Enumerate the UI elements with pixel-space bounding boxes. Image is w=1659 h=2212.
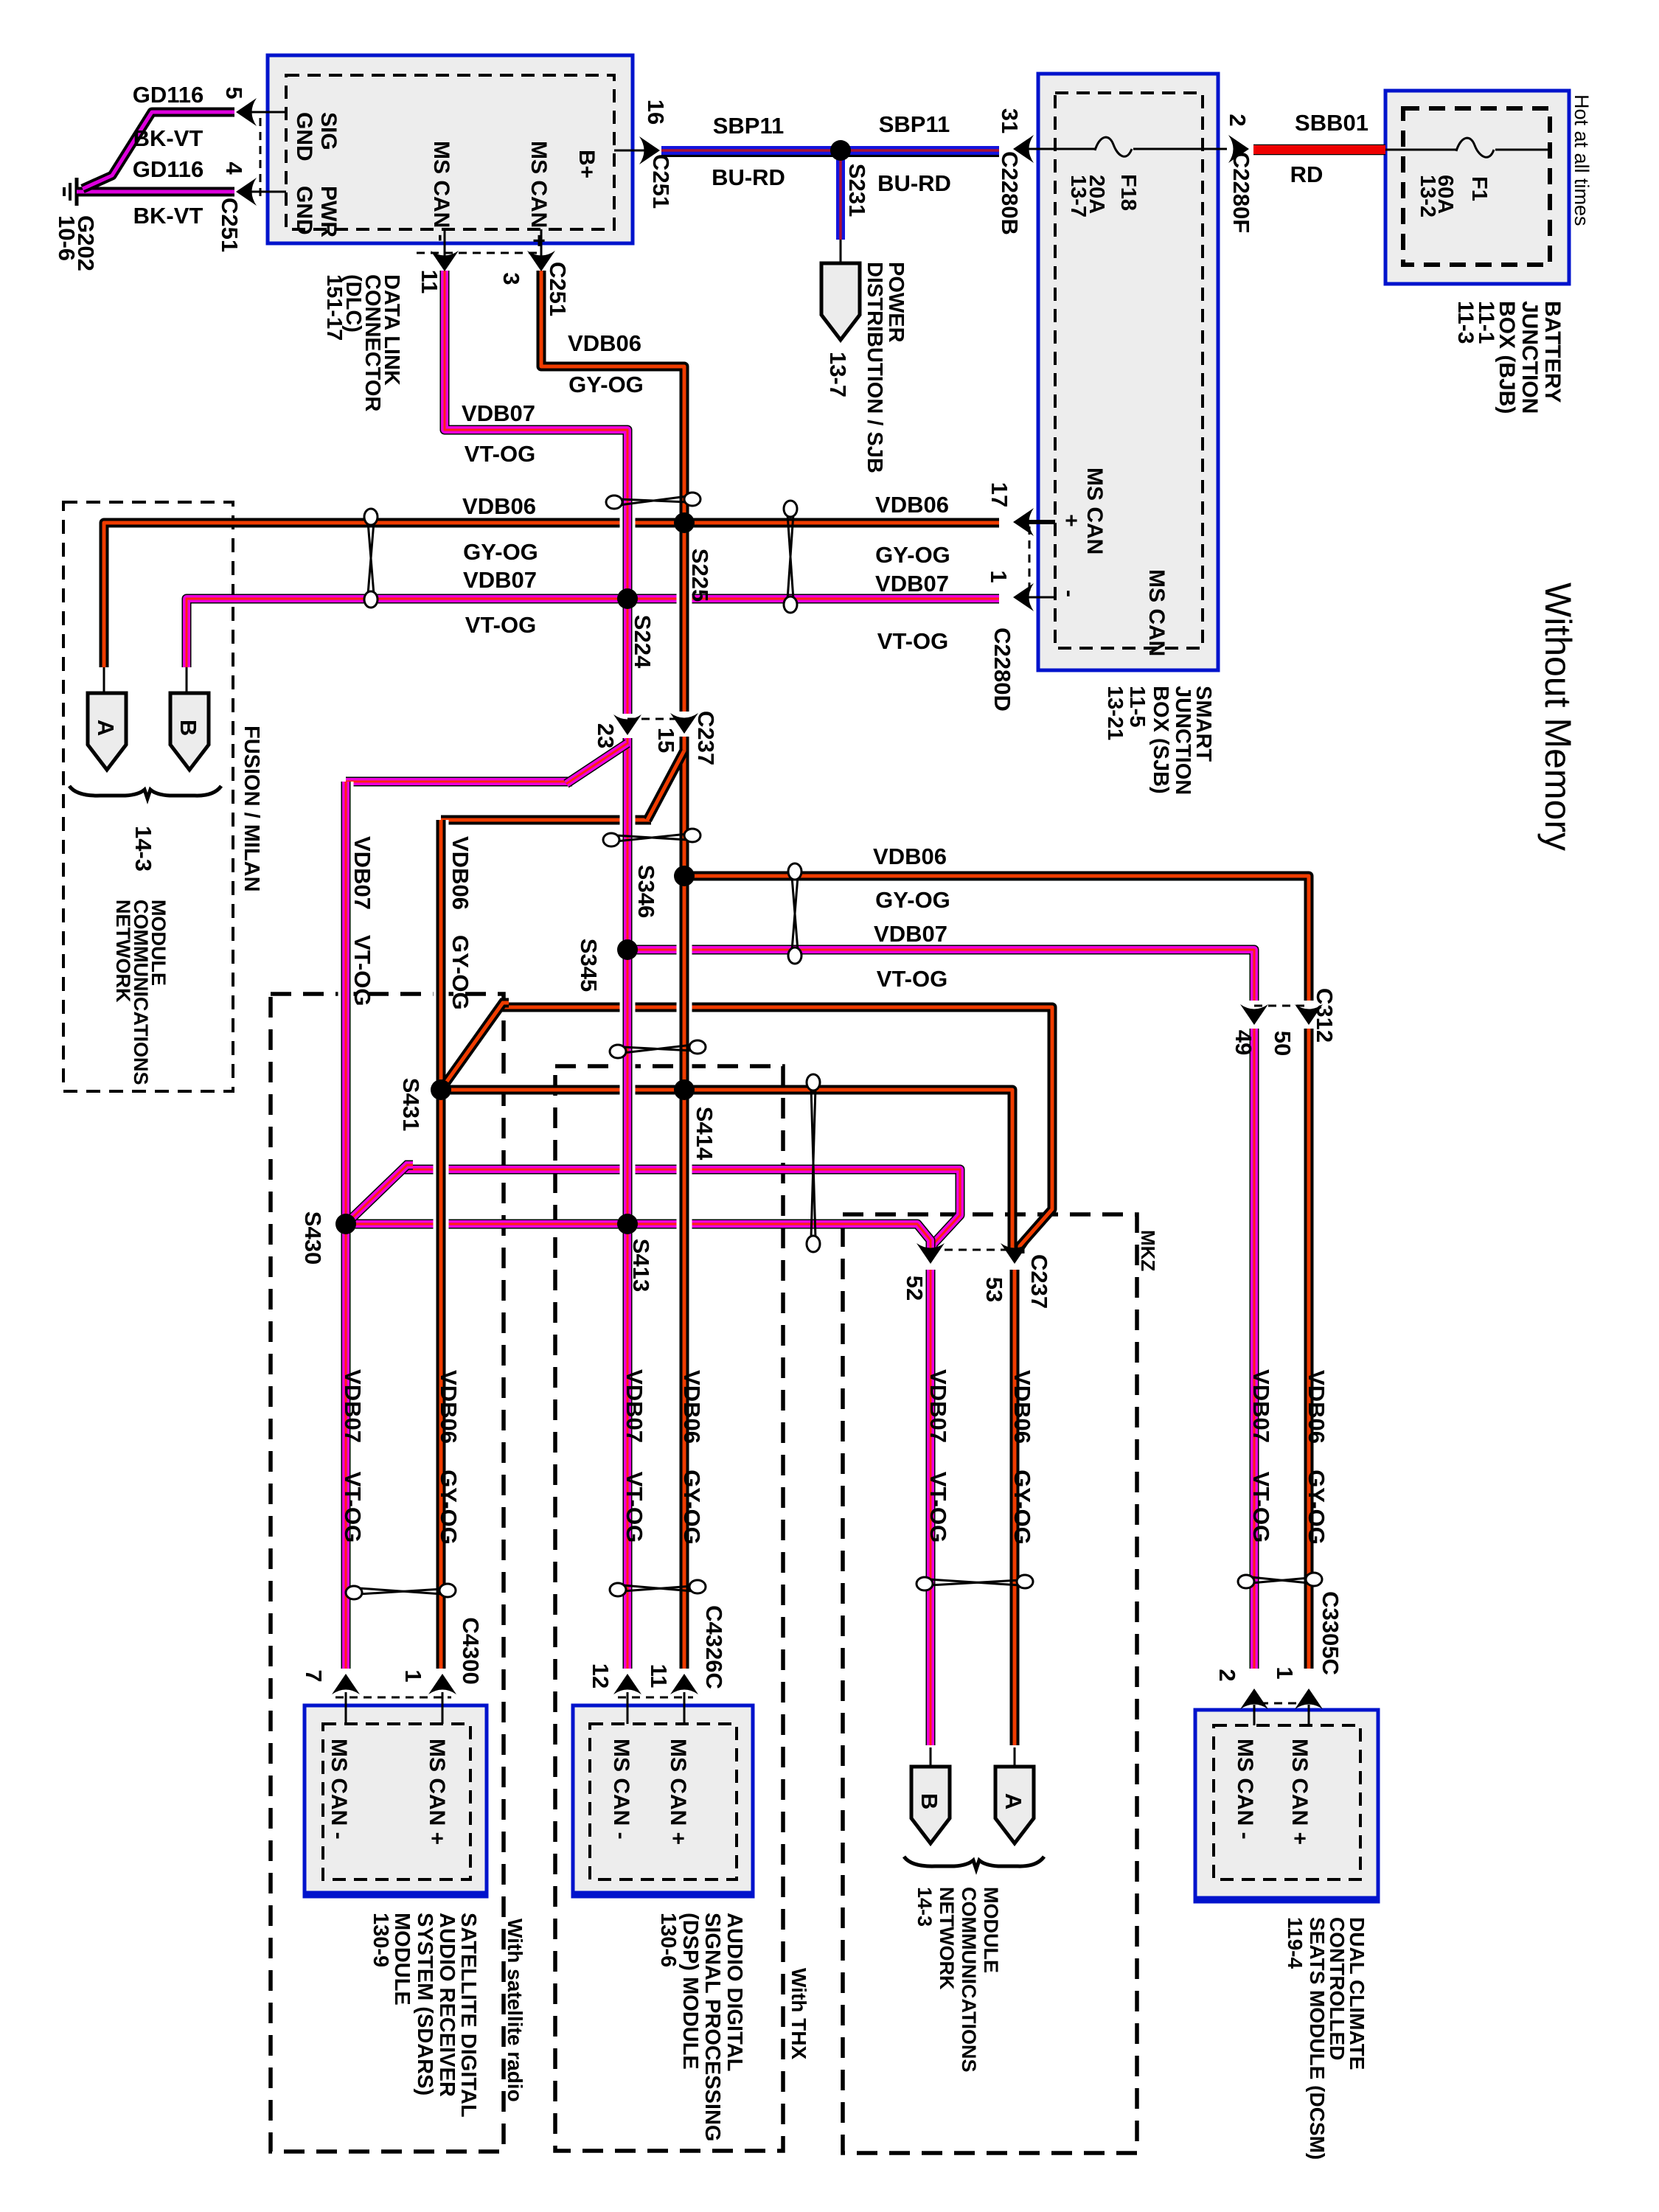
- svg-text:VT-OG: VT-OG: [877, 966, 947, 992]
- twisted pair symbol T2 rows A/B x1072: [784, 501, 797, 613]
- pin arrow SJB pin 17: [1013, 508, 1034, 536]
- wire VDB07 VT-OG vertical x1701 (C312 pin 49 down to C3305C pin 2): [1250, 1029, 1259, 1669]
- wire VDB07 VT-OG vertical x851 below C237 pin 23 (S345, S413, down to C4326C pin 12): [620, 738, 636, 1669]
- connector C251 dashed bracket at DLC left pins: [260, 118, 262, 198]
- label DATA LINK CONNECTOR (DLC) 151-17: [322, 274, 403, 411]
- label MS CAN + SJB: [1059, 467, 1107, 554]
- connector C237 dashed bracket pins 23/15: [627, 718, 684, 720]
- pin arrow SJB pin 31: [1013, 135, 1034, 163]
- pin arrow C237 pin 23: [613, 714, 641, 735]
- svg-text:MS CAN +: MS CAN +: [1287, 1739, 1312, 1845]
- fuse F1 element: [1456, 138, 1494, 157]
- pin line C4300 pin 1 into SDARS: [442, 1692, 444, 1724]
- svg-text:11: 11: [646, 1664, 672, 1688]
- svg-text:Without Memory: Without Memory: [1537, 582, 1579, 851]
- twisted pair symbol T7 rows F/H x1103: [807, 1074, 820, 1252]
- pin arrow SJB C2280F pin 2: [1228, 135, 1249, 163]
- pin arrow C237 pin 15: [670, 713, 698, 734]
- svg-text:SBP11: SBP11: [879, 111, 950, 137]
- svg-text:S430: S430: [300, 1211, 326, 1265]
- box DCSM module: [1195, 1710, 1378, 1902]
- svg-text:50: 50: [1270, 1031, 1295, 1056]
- label MODULE COMMUNICATIONS NETWORK 14-3 MKZ: [914, 1887, 1002, 2072]
- splice S346: [674, 866, 695, 886]
- wire diagonal S430 to row G redraw: [346, 1165, 413, 1224]
- svg-text:VDB07: VDB07: [622, 1369, 647, 1443]
- svg-text:C251: C251: [648, 154, 674, 209]
- svg-text:GY-OG: GY-OG: [1009, 1470, 1035, 1545]
- svg-text:VDB06: VDB06: [462, 493, 536, 519]
- connector arrow B MKZ: [911, 1767, 950, 1843]
- svg-text:+: +: [1059, 514, 1083, 527]
- svg-text:MODULE: MODULE: [390, 1913, 414, 2006]
- svg-text:S231: S231: [844, 164, 870, 217]
- dashed box With THX: [555, 1066, 783, 2151]
- svg-text:C2280D: C2280D: [990, 627, 1015, 712]
- svg-text:VT-OG: VT-OG: [877, 628, 948, 654]
- svg-text:B+: B+: [574, 150, 599, 178]
- pin line C4300 pin 7 into SDARS: [345, 1692, 347, 1724]
- connector arrow A MKZ: [995, 1767, 1034, 1843]
- svg-text:VDB06: VDB06: [1009, 1370, 1035, 1444]
- svg-text:VDB06: VDB06: [448, 836, 473, 910]
- svg-text:C237: C237: [693, 711, 719, 765]
- svg-text:BU-RD: BU-RD: [712, 164, 785, 190]
- splice S225: [674, 512, 695, 533]
- svg-text:130-6: 130-6: [656, 1913, 680, 1967]
- pin line B arrow FUSION: [186, 667, 188, 693]
- fuse line F18 in SJB: [1025, 148, 1095, 150]
- wire VDB07 VT-OG vertical x469 (row I corner through S430 down to C4300 pin 7): [338, 782, 354, 1669]
- svg-text:11-5: 11-5: [1125, 686, 1149, 727]
- wire VDB06 GY-OG vertical x598 (row J corner through S431 down to C4300 pin 1): [434, 820, 449, 1669]
- svg-text:119-4: 119-4: [1284, 1917, 1307, 1969]
- label F1 60A 13-2: [1416, 175, 1491, 218]
- pin line SJB pin 17 MS CAN + (thick): [1019, 520, 1055, 524]
- svg-text:GND: GND: [292, 186, 316, 235]
- svg-text:S414: S414: [692, 1107, 717, 1161]
- label SATELLITE DIGITAL AUDIO RECEIVER SYSTEM (SDARS) MODULE 130-9: [369, 1913, 480, 2118]
- box SJB smart junction box: [1038, 74, 1218, 670]
- svg-text:A: A: [1001, 1793, 1026, 1809]
- wire VDB06 GY-OG row A (FUSION corner to SJB pin 17) with corner down to A arrow: [104, 523, 999, 667]
- pin arrow C4300 pin 7: [332, 1674, 360, 1694]
- svg-text:11: 11: [417, 270, 442, 294]
- svg-text:4: 4: [221, 161, 247, 175]
- svg-text:1: 1: [986, 570, 1012, 582]
- svg-text:BATTERY: BATTERY: [1540, 301, 1565, 403]
- wire VDB06 GY-OG row J (corner x598 to diagonal joining pin 15 drop): [441, 815, 651, 825]
- pin arrow DLC pin 11: [431, 251, 459, 271]
- svg-text:53: 53: [981, 1277, 1007, 1302]
- svg-text:BK-VT: BK-VT: [133, 125, 204, 151]
- svg-text:B: B: [175, 720, 201, 736]
- pin arrow C3305C pin 1: [1295, 1688, 1323, 1709]
- fuse F18 element: [1095, 137, 1132, 156]
- svg-text:(DSP) MODULE: (DSP) MODULE: [678, 1913, 702, 2070]
- label SIG GND: [292, 112, 341, 161]
- connector C4300 dashed bracket: [335, 1697, 451, 1699]
- svg-text:COMMUNICATIONS: COMMUNICATIONS: [958, 1887, 980, 2072]
- pin line DLC pin 4: [243, 191, 286, 193]
- label MS CAN - SJB: [1057, 569, 1169, 656]
- svg-text:C251: C251: [217, 198, 243, 252]
- splice S413: [617, 1214, 638, 1234]
- svg-text:VDB06: VDB06: [1304, 1370, 1329, 1444]
- label PWR GND: [292, 186, 341, 237]
- fuse line F1 in BJB: [1385, 149, 1456, 151]
- pin line DLC pin 11 MS CAN -: [444, 229, 446, 265]
- splice S345: [617, 939, 638, 960]
- wire diagonal S431 to row E redraw: [441, 1003, 509, 1090]
- svg-text:VDB07: VDB07: [462, 400, 535, 426]
- box DSP module: [573, 1705, 753, 1896]
- twisted pair symbol T11 DCSM pair y2144: [1238, 1573, 1322, 1588]
- svg-text:S345: S345: [576, 939, 602, 992]
- svg-text:BOX (SJB): BOX (SJB): [1149, 686, 1172, 794]
- connector arrow A FUSION: [88, 693, 126, 770]
- svg-text:VT-OG: VT-OG: [622, 1472, 647, 1543]
- splice S430: [335, 1214, 356, 1234]
- wire VDB06 GY-OG row C (S346 to C312 pin 50 corner): [684, 876, 1309, 1001]
- svg-text:BU-RD: BU-RD: [877, 170, 951, 196]
- connector arrow B FUSION: [170, 693, 209, 770]
- svg-text:17: 17: [987, 482, 1012, 507]
- svg-text:C2280B: C2280B: [997, 151, 1023, 235]
- svg-text:VT-OG: VT-OG: [1248, 1472, 1274, 1543]
- pin line C4326C pin 12 into DSP: [627, 1692, 629, 1724]
- pin arrow SJB pin 1: [1013, 583, 1034, 611]
- pin line A arrow MKZ: [1014, 1747, 1016, 1767]
- box SDARS module: [305, 1705, 487, 1896]
- wire VDB06 GY-OG vertical x1775 (C312 pin 50 down to C3305C pin 1): [1304, 1029, 1314, 1669]
- wire GD116 BK-VT upper (to DLC pin 5): [83, 112, 234, 189]
- svg-text:C251: C251: [545, 262, 571, 316]
- label DUAL CLIMATE CONTROLLED SEATS MODULE (DCSM) 119-4: [1284, 1917, 1368, 2160]
- pin arrow DLC pin 5: [236, 98, 257, 126]
- connector C2280D dashed bracket at SJB pins: [1029, 526, 1031, 596]
- label G202 10-6: [54, 215, 99, 271]
- pin arrow C237 pin 52: [917, 1243, 945, 1264]
- svg-text:GY-OG: GY-OG: [1304, 1470, 1329, 1545]
- wire SBB01 RD (SJB C2280F to BJB): [1253, 145, 1385, 156]
- svg-text:13-7: 13-7: [825, 352, 851, 397]
- svg-text:12: 12: [588, 1663, 613, 1688]
- svg-text:SIG: SIG: [316, 112, 341, 150]
- twisted pair symbol T5 rows C/D x1078: [788, 863, 801, 964]
- wire SBP11 BU-RD drop from S231 to power distribution: [836, 150, 845, 240]
- pin line SJB pin 1 MS CAN -: [1019, 597, 1055, 599]
- svg-text:BK-VT: BK-VT: [133, 203, 204, 229]
- svg-text:15: 15: [653, 728, 679, 753]
- svg-text:VDB06: VDB06: [875, 492, 949, 518]
- svg-text:GY-OG: GY-OG: [875, 887, 950, 913]
- svg-text:GY-OG: GY-OG: [875, 542, 950, 568]
- svg-text:2: 2: [1225, 114, 1251, 126]
- svg-text:DISTRIBUTION / SJB: DISTRIBUTION / SJB: [863, 262, 886, 473]
- wire VDB07 VT-OG row B (FUSION corner to SJB pin 1) with corner down to B arrow: [187, 599, 999, 667]
- label F18 20A 13-7: [1066, 174, 1140, 218]
- svg-text:2: 2: [1214, 1669, 1240, 1681]
- svg-text:With satellite radio: With satellite radio: [504, 1919, 526, 2102]
- svg-text:1: 1: [1272, 1666, 1298, 1679]
- label BATTERY JUNCTION BOX (BJB) 11-1 11-3: [1453, 301, 1565, 414]
- svg-text:MKZ: MKZ: [1137, 1230, 1159, 1271]
- pin line A arrow FUSION: [103, 667, 105, 693]
- pin arrow C3305C pin 2: [1240, 1688, 1268, 1709]
- svg-text:31: 31: [997, 108, 1023, 133]
- svg-text:C237: C237: [1026, 1254, 1052, 1309]
- svg-text:11-3: 11-3: [1453, 301, 1478, 344]
- svg-text:MS CAN -: MS CAN -: [327, 1739, 351, 1840]
- svg-text:13-21: 13-21: [1103, 686, 1127, 740]
- svg-text:C312: C312: [1312, 988, 1338, 1043]
- box DLC data link connector: [268, 55, 633, 243]
- svg-text:GND: GND: [292, 112, 316, 161]
- svg-text:10-6: 10-6: [54, 215, 80, 261]
- svg-text:GY-OG: GY-OG: [463, 539, 538, 565]
- svg-text:VDB07: VDB07: [340, 1369, 366, 1443]
- svg-text:VDB07: VDB07: [349, 836, 375, 910]
- connector C251 dashed bracket at DLC bottom pins: [417, 252, 541, 254]
- svg-text:C4300: C4300: [458, 1617, 484, 1684]
- svg-text:52: 52: [902, 1276, 928, 1301]
- dashed box FUSION/MILAN module communications network: [63, 502, 233, 1091]
- svg-text:F18: F18: [1116, 174, 1140, 211]
- svg-text:B: B: [917, 1793, 942, 1809]
- svg-text:GY-OG: GY-OG: [436, 1470, 462, 1545]
- pin line S231 to power distribution arrow: [840, 240, 842, 263]
- pin line C3305C pin 2 into DCSM: [1253, 1705, 1256, 1725]
- svg-text:13-2: 13-2: [1416, 175, 1439, 218]
- wire VDB07 VT-OG row D (S345 to C312 pin 49 corner): [627, 950, 1254, 1001]
- wire VDB07 VT-OG row H (S430 through S413 to C237 pin 52): [346, 1224, 931, 1253]
- svg-text:AUDIO RECEIVER: AUDIO RECEIVER: [435, 1913, 459, 2097]
- wire VDB07 VT-OG from DLC pin 11 down and over to vertical x851: [445, 271, 627, 714]
- svg-text:RD: RD: [1290, 161, 1324, 187]
- pin arrow C312 pin 49: [1240, 1004, 1268, 1025]
- svg-text:GY-OG: GY-OG: [568, 372, 644, 397]
- svg-text:151-17: 151-17: [322, 274, 346, 341]
- svg-text:VDB07: VDB07: [875, 571, 949, 597]
- svg-text:S224: S224: [630, 615, 655, 669]
- wire diagonal row I to pin23 drop redraw: [566, 743, 627, 784]
- twisted pair symbol T9 C4326C pair y2155: [610, 1580, 706, 1596]
- svg-text:SATELLITE DIGITAL: SATELLITE DIGITAL: [456, 1913, 480, 2118]
- svg-text:FUSION / MILAN: FUSION / MILAN: [240, 726, 263, 892]
- svg-text:VT-OG: VT-OG: [465, 441, 535, 467]
- svg-text:MS CAN +: MS CAN +: [425, 1739, 449, 1845]
- svg-text:POWER: POWER: [884, 262, 908, 343]
- svg-text:MS CAN +: MS CAN +: [666, 1739, 690, 1845]
- splice S414: [674, 1079, 695, 1100]
- splice S224: [617, 588, 638, 609]
- pin arrow C4326C pin 12: [613, 1674, 641, 1694]
- pin line DLC pin 16 B+: [614, 150, 652, 152]
- svg-text:VDB06: VDB06: [679, 1370, 705, 1444]
- connector C312 dashed bracket pins 49/50: [1254, 1005, 1309, 1007]
- splice S231: [830, 140, 851, 161]
- splice S431: [431, 1079, 451, 1100]
- svg-text:VT-OG: VT-OG: [349, 935, 375, 1006]
- svg-text:MS CAN -: MS CAN -: [1233, 1739, 1257, 1840]
- svg-text:NETWORK: NETWORK: [112, 900, 134, 1003]
- label MODULE COMMUNICATIONS NETWORK left: [112, 900, 170, 1085]
- pin line C3305C pin 1 into DCSM: [1308, 1705, 1310, 1725]
- svg-text:GY-OG: GY-OG: [448, 935, 473, 1010]
- svg-text:VDB06: VDB06: [436, 1370, 462, 1444]
- svg-text:SBB01: SBB01: [1295, 110, 1368, 136]
- svg-text:AUDIO DIGITAL: AUDIO DIGITAL: [723, 1913, 746, 2071]
- svg-text:Hot at all times: Hot at all times: [1571, 94, 1593, 226]
- svg-text:A: A: [93, 720, 119, 736]
- svg-text:5: 5: [221, 86, 247, 99]
- svg-text:S413: S413: [628, 1239, 654, 1292]
- svg-text:S225: S225: [687, 549, 713, 602]
- twisted pair symbol T4 verticals above S346 y1137: [603, 829, 700, 846]
- svg-text:VDB06: VDB06: [568, 330, 641, 356]
- pin arrow DLC pin 16: [639, 136, 660, 164]
- pin arrow DLC pin 4: [236, 178, 257, 206]
- pin arrow C237 pin 53: [1001, 1243, 1029, 1264]
- label AUDIO DIGITAL SIGNAL PROCESSING (DSP) MODULE 130-6: [656, 1913, 746, 2141]
- connector arrow POWER DISTRIBUTION: [821, 263, 860, 340]
- twisted pair symbol T10 MKZ pair y2147: [917, 1575, 1033, 1590]
- svg-text:MODULE: MODULE: [980, 1887, 1002, 1973]
- svg-text:GD116: GD116: [133, 82, 204, 108]
- svg-text:JUNCTION: JUNCTION: [1517, 301, 1542, 414]
- svg-text:23: 23: [593, 723, 619, 748]
- dashed box With satellite radio: [271, 994, 504, 2152]
- svg-text:With THX: With THX: [787, 1968, 810, 2059]
- wire VDB06 GY-OG vertical x928 below C237 pin 15 (S346, S414, down to C4326C pin 11): [677, 737, 692, 1669]
- svg-text:7: 7: [301, 1669, 327, 1682]
- wire VDB07 VT-OG row G (S430 diagonal to corner x1302 down to C237 pin 52): [403, 1169, 960, 1253]
- wire VDB07 VT-OG row I (corner x469 to diagonal joining pin 23 drop): [346, 777, 572, 787]
- wire SBP11 BU-RD (DLC pin16 to S231 to SJB pin31): [661, 150, 999, 156]
- svg-text:-: -: [1057, 590, 1082, 597]
- svg-text:C4326C: C4326C: [701, 1605, 727, 1689]
- svg-text:C3305C: C3305C: [1318, 1591, 1343, 1675]
- svg-text:VDB07: VDB07: [874, 921, 947, 947]
- wire diagonal row J to pin15 drop redraw: [647, 751, 684, 820]
- svg-text:14-3: 14-3: [131, 826, 156, 872]
- svg-text:SBP11: SBP11: [713, 113, 785, 139]
- pin line B arrow MKZ: [930, 1747, 932, 1767]
- wire VDB07 VT-OG vertical x1262 (C237 pin 52 down to B arrow MKZ): [926, 1270, 936, 1745]
- label SMART JUNCTION BOX (SJB) 11-5 13-21: [1103, 686, 1215, 795]
- twisted pair symbol T1 rows A/B x501: [364, 509, 378, 608]
- box BJB battery junction box: [1385, 91, 1569, 284]
- pin arrow C312 pin 50: [1295, 1004, 1323, 1025]
- svg-text:JUNCTION: JUNCTION: [1171, 686, 1194, 795]
- pin arrow C4326C pin 11: [670, 1674, 698, 1694]
- svg-text:14-3: 14-3: [914, 1887, 936, 1927]
- svg-text:13-7: 13-7: [1066, 175, 1090, 218]
- wire VDB06 GY-OG vertical x1376 (C237 pin 53 down to A arrow MKZ): [1010, 1270, 1020, 1745]
- connector C4326C dashed bracket: [618, 1697, 693, 1699]
- svg-text:NETWORK: NETWORK: [936, 1887, 958, 1990]
- svg-text:MS CAN +: MS CAN +: [526, 141, 551, 247]
- svg-text:S431: S431: [398, 1078, 424, 1131]
- label POWER DISTRIBUTION / SJB: [863, 262, 908, 473]
- svg-text:MS CAN: MS CAN: [1144, 569, 1169, 656]
- svg-text:S346: S346: [633, 865, 659, 918]
- twisted pair symbol T6 verticals x851/x928 y1424: [610, 1040, 706, 1058]
- svg-text:GD116: GD116: [133, 156, 204, 182]
- svg-text:SEATS MODULE (DCSM): SEATS MODULE (DCSM): [1306, 1917, 1329, 2160]
- svg-text:PWR: PWR: [316, 186, 341, 237]
- pin arrow DLC pin 3: [527, 251, 555, 271]
- svg-text:VT-OG: VT-OG: [340, 1472, 366, 1543]
- svg-text:GY-OG: GY-OG: [679, 1470, 705, 1545]
- svg-text:VDB07: VDB07: [1248, 1369, 1274, 1443]
- svg-text:130-9: 130-9: [369, 1913, 392, 1967]
- svg-text:MS CAN: MS CAN: [1082, 467, 1107, 554]
- pin line DLC pin 3 MS CAN +: [540, 229, 543, 265]
- wire VDB06 GY-OG from DLC pin 3 down and over to vertical x928: [541, 271, 684, 712]
- pin arrow C4300 pin 1: [428, 1674, 456, 1694]
- pin line DLC pin 5: [243, 111, 286, 114]
- twisted pair symbol T3 verticals above S225: [606, 493, 700, 509]
- pin line C4326C pin 11 into DSP: [684, 1692, 686, 1724]
- svg-text:1: 1: [400, 1669, 426, 1682]
- twisted pair symbol T8 C4300 pair y2159: [346, 1584, 456, 1599]
- connector C3305C dashed bracket: [1246, 1703, 1317, 1705]
- svg-text:SYSTEM (SDARS): SYSTEM (SDARS): [413, 1913, 437, 2096]
- svg-text:VT-OG: VT-OG: [465, 612, 536, 638]
- svg-text:3: 3: [498, 272, 524, 285]
- wire VDB06 GY-OG row E (S431 diagonal to corner x1427 down to C237 pin 53): [498, 1007, 1052, 1253]
- svg-text:VDB07: VDB07: [925, 1369, 951, 1443]
- wire GD116 BK-VT lower (G202 to DLC pin 4): [77, 187, 234, 197]
- ground G202: [64, 178, 77, 206]
- svg-text:MS CAN -: MS CAN -: [609, 1739, 633, 1840]
- brace MKZ 14-3: [904, 1857, 1044, 1869]
- svg-text:SIGNAL PROCESSING: SIGNAL PROCESSING: [700, 1913, 724, 2141]
- svg-text:VDB06: VDB06: [873, 844, 947, 869]
- svg-text:C2280F: C2280F: [1228, 152, 1254, 233]
- svg-text:F1: F1: [1467, 176, 1491, 201]
- svg-text:VDB07: VDB07: [463, 567, 537, 593]
- dashed box MKZ: [843, 1214, 1137, 2153]
- connector C237 dashed bracket pins 52/53 MKZ: [931, 1249, 1015, 1251]
- wire VDB06 GY-OG row F (S431 through S414 corner x1373 down to C237 pin 53): [441, 1090, 1012, 1253]
- svg-text:16: 16: [643, 100, 669, 125]
- svg-text:MS CAN -: MS CAN -: [429, 141, 453, 242]
- svg-text:49: 49: [1231, 1030, 1256, 1055]
- brace FUSION 14-3: [69, 786, 221, 799]
- svg-text:VT-OG: VT-OG: [925, 1472, 951, 1543]
